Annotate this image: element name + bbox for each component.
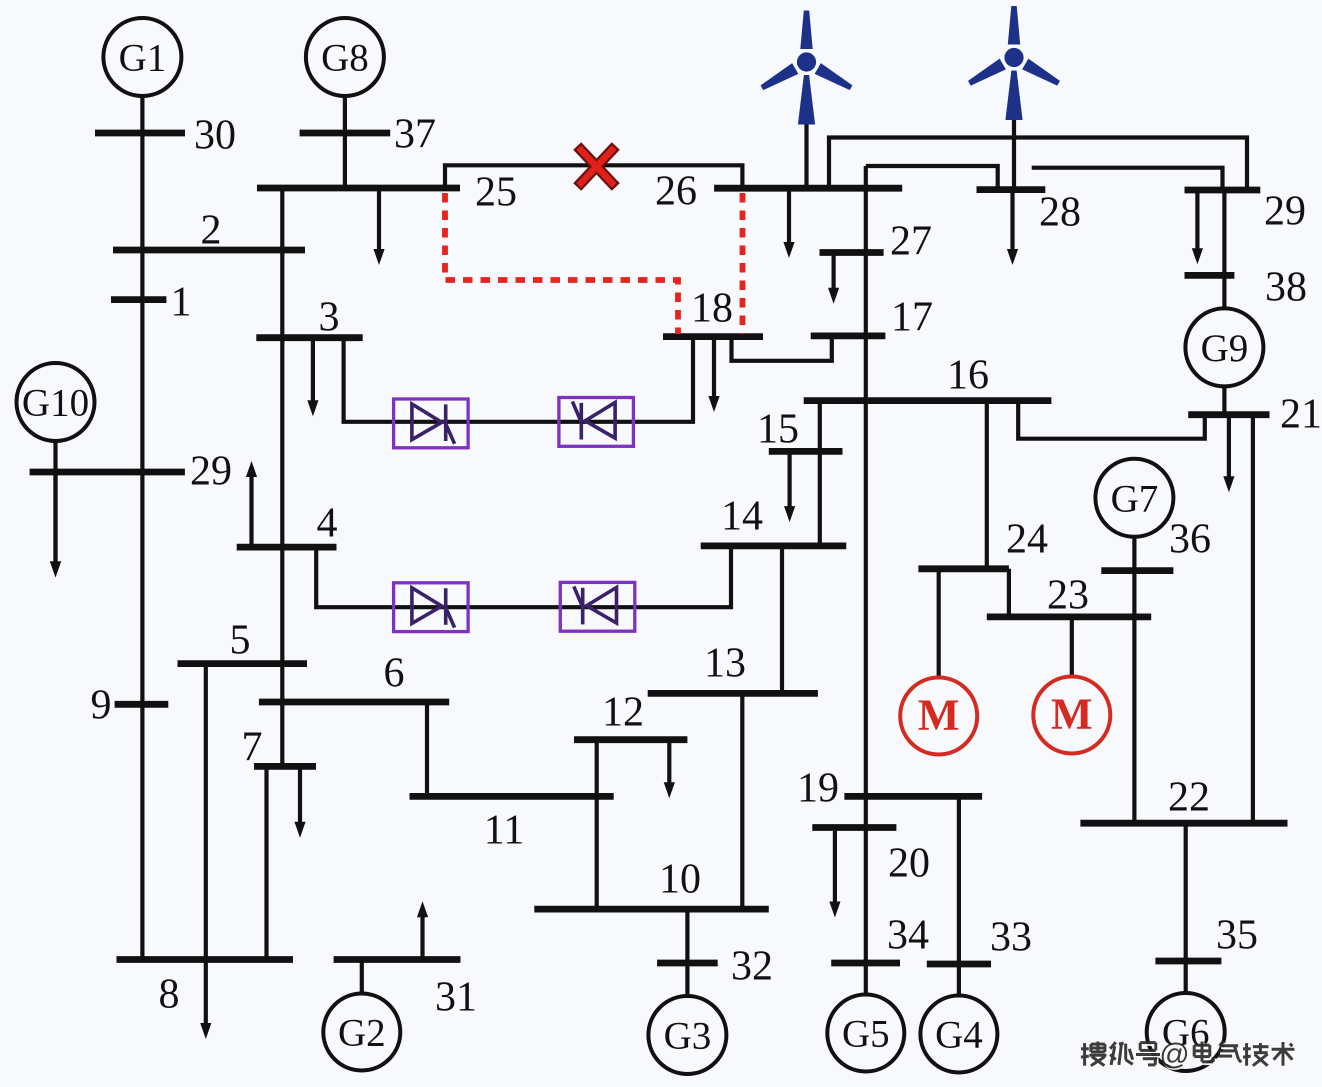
svg-text:@: @ [1159, 1038, 1189, 1071]
svg-text:30: 30 [194, 112, 236, 158]
svg-text:5: 5 [230, 617, 251, 663]
svg-text:12: 12 [602, 689, 644, 735]
svg-text:G8: G8 [321, 37, 369, 80]
svg-text:G7: G7 [1111, 477, 1159, 520]
svg-text:20: 20 [888, 840, 930, 886]
svg-text:10: 10 [659, 856, 701, 902]
svg-text:15: 15 [757, 406, 799, 452]
svg-text:36: 36 [1169, 516, 1211, 562]
svg-text:26: 26 [655, 168, 697, 214]
svg-text:9: 9 [91, 682, 112, 728]
svg-text:17: 17 [891, 294, 933, 340]
svg-text:21: 21 [1280, 391, 1322, 437]
svg-text:8: 8 [159, 971, 180, 1017]
svg-text:29: 29 [1264, 188, 1306, 234]
svg-text:25: 25 [475, 169, 517, 215]
svg-text:M: M [1051, 690, 1093, 739]
svg-text:29: 29 [190, 448, 232, 494]
svg-text:18: 18 [691, 285, 733, 331]
svg-text:13: 13 [704, 640, 746, 686]
svg-text:27: 27 [890, 218, 932, 264]
svg-text:34: 34 [887, 912, 929, 958]
svg-text:G4: G4 [935, 1014, 983, 1057]
svg-text:24: 24 [1006, 516, 1048, 562]
svg-text:19: 19 [797, 765, 839, 811]
svg-text:3: 3 [319, 294, 340, 340]
svg-text:22: 22 [1168, 774, 1210, 820]
svg-text:14: 14 [721, 493, 763, 539]
svg-text:6: 6 [384, 650, 405, 696]
svg-text:2: 2 [201, 207, 222, 253]
svg-text:G5: G5 [842, 1013, 890, 1056]
svg-text:1: 1 [171, 279, 192, 325]
svg-text:16: 16 [947, 352, 989, 398]
svg-text:37: 37 [394, 111, 436, 157]
svg-text:28: 28 [1039, 189, 1081, 235]
svg-text:G10: G10 [22, 382, 89, 425]
svg-text:G1: G1 [119, 37, 167, 80]
svg-text:G2: G2 [338, 1012, 386, 1055]
svg-text:11: 11 [484, 807, 524, 853]
svg-text:31: 31 [435, 974, 477, 1020]
svg-text:4: 4 [317, 500, 338, 546]
svg-text:23: 23 [1047, 572, 1089, 618]
svg-text:7: 7 [242, 724, 263, 770]
svg-text:38: 38 [1265, 264, 1307, 310]
svg-text:M: M [918, 691, 960, 740]
svg-text:G3: G3 [664, 1015, 712, 1058]
svg-text:32: 32 [731, 943, 773, 989]
svg-text:33: 33 [990, 914, 1032, 960]
svg-text:G9: G9 [1201, 327, 1249, 370]
svg-text:35: 35 [1216, 912, 1258, 958]
